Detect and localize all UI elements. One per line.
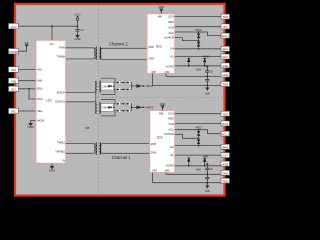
svg-text:AUNSH: AUNSH <box>164 132 174 136</box>
gate driver U1 (LDI) <box>36 40 66 163</box>
port RLT <box>221 54 230 59</box>
port EN <box>9 86 19 91</box>
svg-text:SCH: SCH <box>168 111 174 115</box>
port TM3 <box>221 178 230 183</box>
port ASE2 <box>221 161 230 166</box>
svg-text:2NN: 2NN <box>151 151 157 155</box>
svg-text:EN2: EN2 <box>37 97 43 101</box>
svg-text:PGND: PGND <box>9 50 19 54</box>
ground U1 <box>51 163 53 166</box>
TVS clamp D15 <box>198 129 200 131</box>
wire SCH (U3) <box>175 113 221 115</box>
svg-text:CHE: CHE <box>222 73 228 77</box>
port TD7 <box>221 111 230 116</box>
svg-text:TWNB2: TWNB2 <box>55 150 65 154</box>
transformer T3 windings <box>96 102 101 114</box>
wire ACL stepped <box>175 32 221 36</box>
supply arrow <box>206 65 209 67</box>
svg-text:AUNSH: AUNSH <box>164 36 174 40</box>
diode D2 <box>126 81 131 84</box>
svg-text:ACL: ACL <box>169 31 175 35</box>
diode D8 on ACRG <box>204 65 206 67</box>
port CHE2 <box>221 170 230 175</box>
node VCC junction <box>51 25 53 27</box>
transformer T4 secondary loop <box>101 144 150 154</box>
svg-text:ASE: ASE <box>222 64 228 68</box>
port ITO <box>221 24 230 29</box>
svg-text:INB: INB <box>37 79 42 83</box>
svg-text:VDD: VDD <box>160 102 166 106</box>
svg-text:HRW: HRW <box>203 156 209 158</box>
port ASE <box>221 63 230 68</box>
svg-text:GND: GND <box>27 125 33 129</box>
channel separator horizontal dashed line <box>98 96 223 98</box>
port ITO1 <box>221 121 230 126</box>
svg-text:GH: GH <box>170 145 174 149</box>
svg-text:ICG: ICG <box>156 45 162 49</box>
port ACL1 <box>221 33 230 38</box>
svg-text:GND: GND <box>49 169 55 173</box>
capacitor C7 <box>75 29 79 31</box>
transformer T1 secondary loop <box>101 48 149 59</box>
svg-text:REF: REF <box>168 117 174 121</box>
svg-text:ACRG: ACRG <box>166 164 174 168</box>
TVS clamp D5 <box>198 31 200 33</box>
power flag VDD (top) <box>160 9 162 14</box>
port INB <box>9 78 19 83</box>
wire HW down-right (U3) <box>166 173 221 175</box>
svg-text:GLT: GLT <box>222 154 228 158</box>
svg-text:HW: HW <box>165 169 170 173</box>
svg-text:TM2: TM2 <box>222 83 228 87</box>
wire GL <box>175 55 221 57</box>
svg-text:VCC: VCC <box>10 25 17 29</box>
wire VCC rail <box>19 21 78 41</box>
svg-text:GL: GL <box>170 54 174 58</box>
svg-text:2NP: 2NP <box>151 142 157 146</box>
svg-text:CM6: CM6 <box>205 191 211 193</box>
bridge wires row2 <box>114 104 136 111</box>
port BP6 <box>221 46 230 51</box>
svg-text:TM2: TM2 <box>222 179 228 183</box>
supply arrow (bottom) <box>206 162 209 164</box>
svg-text:INB: INB <box>11 79 16 83</box>
wire EN with branch <box>19 89 37 99</box>
output diode row2 <box>137 106 142 109</box>
wire MGB to ground <box>31 121 37 124</box>
svg-text:TWN2: TWN2 <box>57 141 65 145</box>
svg-text:CHE: CHE <box>222 171 228 175</box>
rectifier input box row2 <box>101 104 114 112</box>
decoupling chain C8 C9 <box>206 76 208 78</box>
svg-text:EXDO2: EXDO2 <box>55 100 65 104</box>
transformer T1 windings <box>96 47 101 60</box>
rectifier input box row1 <box>101 82 114 90</box>
svg-text:RM: RM <box>152 70 157 74</box>
wire ACRG (U3) <box>175 165 221 167</box>
svg-text:Channel 1: Channel 1 <box>112 155 131 160</box>
wire INA <box>19 69 37 71</box>
svg-text:EN1: EN1 <box>37 87 43 91</box>
svg-text:GH: GH <box>170 47 174 51</box>
svg-text:HRH2: HRH2 <box>146 84 154 88</box>
diode D4 <box>126 88 131 91</box>
svg-text:ITO: ITO <box>223 25 229 29</box>
svg-text:CM6: CM6 <box>196 70 202 72</box>
wire EXDO primary loop <box>66 93 96 102</box>
svg-text:CWS: CWS <box>102 86 108 88</box>
svg-text:HRH2: HRH2 <box>195 30 202 32</box>
svg-text:ACL1: ACL1 <box>221 34 229 38</box>
isolation barrier vertical dashed line <box>97 6 99 195</box>
svg-text:C7: C7 <box>80 28 84 32</box>
diode D13 <box>116 109 121 112</box>
board outline (red bordered gray panel) <box>15 4 225 196</box>
svg-text:VCC: VCC <box>74 13 81 17</box>
wire GL (U3) <box>175 154 221 156</box>
diode D12 <box>126 102 131 105</box>
port TM2 <box>221 82 230 87</box>
transformer T4 windings <box>96 143 101 155</box>
port ACL2 <box>221 131 230 136</box>
svg-text:GL: GL <box>170 153 174 157</box>
svg-text:Channel 2: Channel 2 <box>109 42 128 47</box>
output diode row1 <box>137 85 142 88</box>
svg-text:TD6: TD6 <box>222 15 228 19</box>
transformer T1 primary loop <box>66 48 95 59</box>
wire VCE <box>175 26 221 28</box>
wire INB <box>19 80 37 82</box>
svg-text:CWS: CWS <box>102 108 108 110</box>
gate stage U2 (top right IC) <box>147 14 175 74</box>
svg-text:HRG2: HRG2 <box>146 105 154 109</box>
svg-text:EN: EN <box>11 88 15 92</box>
svg-text:INA: INA <box>37 67 42 71</box>
svg-text:2NN: 2NN <box>149 57 155 61</box>
port PGND <box>9 49 19 54</box>
ground MGB <box>29 123 32 125</box>
ground chain (bottom) <box>206 186 209 188</box>
svg-text:HM: HM <box>158 15 163 19</box>
svg-text:VCE: VCE <box>168 25 174 29</box>
svg-text:RLT: RLT <box>222 55 228 59</box>
svg-text:BP6: BP6 <box>222 145 228 149</box>
row1 secondary stubs <box>101 78 116 94</box>
svg-text:BP6: BP6 <box>222 47 228 51</box>
svg-text:ACL: ACL <box>169 128 175 132</box>
wire GH (U3) <box>175 145 221 147</box>
power flag VCC <box>76 16 79 21</box>
diode D17 on ACRG <box>188 165 190 167</box>
net arrow HRG2 <box>143 106 145 108</box>
diode D3 <box>116 88 121 91</box>
wire ACRG <box>175 65 221 67</box>
ground chain <box>206 88 209 90</box>
power flag VDD (bottom IC) <box>162 106 164 111</box>
wire VCE (U3) <box>175 122 221 124</box>
wire AUNSH stepped <box>175 38 199 41</box>
svg-text:ASE: ASE <box>222 162 228 166</box>
port CHE <box>221 72 230 77</box>
svg-text:VCE: VCE <box>168 122 174 126</box>
svg-text:CM6: CM6 <box>196 170 202 172</box>
svg-text:EXDO: EXDO <box>57 90 66 94</box>
wire ACL stepped (U3) <box>175 130 221 134</box>
svg-text:SEL: SEL <box>37 109 43 113</box>
svg-text:ACL1: ACL1 <box>221 132 229 136</box>
svg-text:SCH: SCH <box>168 15 174 19</box>
ground PGND flag <box>25 45 28 47</box>
wire RM down-right <box>153 74 221 86</box>
svg-text:HM: HM <box>159 111 164 115</box>
diode D18 on ACRG <box>204 165 206 167</box>
transformer T2 windings <box>96 81 101 93</box>
svg-text:W8: W8 <box>85 126 89 130</box>
port VCC <box>9 23 19 28</box>
wire SCH <box>175 16 221 18</box>
TVS clamp D16 <box>197 138 200 145</box>
wire GH <box>175 48 221 50</box>
wire PGND <box>19 47 27 51</box>
port GLT <box>221 153 230 158</box>
row2 secondary stubs <box>101 100 115 116</box>
svg-text:INA: INA <box>11 68 16 72</box>
svg-text:HRW2: HRW2 <box>203 57 210 59</box>
port TD6 (right) <box>221 14 230 19</box>
svg-text:GND: GND <box>74 37 80 41</box>
wire RM down-right (U3) <box>153 173 221 183</box>
svg-text:MGB: MGB <box>37 119 44 123</box>
diode D7 on ACRG <box>188 65 190 67</box>
svg-text:HW: HW <box>165 70 170 74</box>
svg-text:WR: WR <box>25 43 29 45</box>
node EN branch <box>28 88 30 90</box>
svg-text:RM: RM <box>153 169 158 173</box>
wire AUNSH stepped (U3) <box>175 134 199 138</box>
bridge wires row1 <box>114 83 136 90</box>
svg-text:Vin: Vin <box>50 42 55 46</box>
diode D14 <box>126 109 131 112</box>
transformer T4 primary loop <box>66 144 95 154</box>
svg-text:ICG: ICG <box>157 136 163 140</box>
TVS clamp D6 <box>197 41 200 49</box>
svg-text:LDI: LDI <box>47 98 52 102</box>
port SEL <box>9 108 19 113</box>
svg-text:SEL: SEL <box>11 110 17 114</box>
wire SEL <box>19 110 37 112</box>
svg-text:TWN: TWN <box>59 46 65 50</box>
port INA <box>9 67 19 72</box>
diode D1 <box>116 81 121 84</box>
diode D11 <box>116 102 121 105</box>
decoupling chain C10 C11 <box>206 173 208 175</box>
svg-text:HRG2: HRG2 <box>195 128 202 130</box>
svg-text:CM6: CM6 <box>205 94 211 96</box>
svg-text:REF: REF <box>168 20 174 24</box>
svg-text:VDD: VDD <box>158 5 164 9</box>
port BP7 <box>221 144 230 149</box>
svg-text:ITO1: ITO1 <box>222 122 229 126</box>
net arrow HRH2 <box>143 85 145 87</box>
wire HW down-right <box>166 74 221 77</box>
svg-text:TWNB: TWNB <box>57 55 65 59</box>
gate stage U3 (bottom right IC) <box>150 111 175 173</box>
svg-text:2NP: 2NP <box>149 45 155 49</box>
ground (top bypass) <box>76 34 79 38</box>
svg-text:TD6: TD6 <box>222 112 228 116</box>
svg-text:ACRG: ACRG <box>166 65 174 69</box>
svg-text:Vo: Vo <box>62 159 66 163</box>
